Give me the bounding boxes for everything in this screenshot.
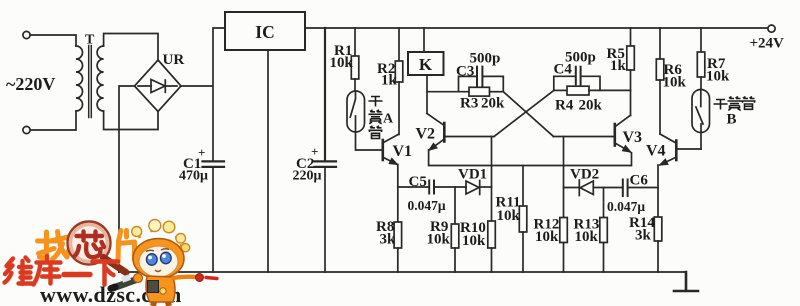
resistor R11 bbox=[522, 166, 524, 207]
svg-text:10k: 10k bbox=[330, 55, 354, 71]
svg-text:10k: 10k bbox=[427, 232, 451, 248]
label reed A chinese 干簧管 (drawn strokes, vertical) bbox=[369, 97, 383, 139]
svg-text:UR: UR bbox=[163, 52, 185, 68]
wire node to C3R3 left bbox=[427, 91, 469, 93]
transformer T primary winding bbox=[76, 46, 83, 111]
resistor R10 bbox=[488, 221, 496, 248]
resistor R7 bbox=[700, 28, 702, 52]
wire R13 tap bbox=[603, 188, 605, 218]
svg-text:R4: R4 bbox=[555, 98, 574, 114]
svg-text:1k: 1k bbox=[381, 73, 398, 89]
capacitor C2 bbox=[315, 28, 337, 167]
wire R9 tap bbox=[454, 187, 456, 224]
arrow V4 emitter bbox=[660, 159, 669, 165]
diode VD1 bbox=[466, 181, 479, 194]
svg-text:3k: 3k bbox=[635, 228, 652, 244]
watermark logo 片 pian (orange) bbox=[118, 231, 135, 263]
svg-text:V3: V3 bbox=[623, 129, 643, 146]
mascot pen and handle bbox=[113, 279, 138, 288]
svg-text:+24V: +24V bbox=[750, 36, 785, 52]
+24V supply rail bbox=[305, 27, 768, 29]
wire reed B to V4 base bbox=[700, 133, 702, 150]
wire UR negative output down to ground rail bbox=[119, 86, 135, 272]
resistor R8 bbox=[394, 222, 402, 248]
watermark logo magnifier glass bbox=[68, 222, 127, 273]
arrow V2 emitter bbox=[429, 143, 437, 150]
svg-text:T: T bbox=[85, 33, 95, 48]
mascot antennae bbox=[137, 226, 186, 248]
svg-text:0.047μ: 0.047μ bbox=[408, 198, 446, 213]
arrow V3 emitter bbox=[622, 146, 630, 153]
watermark mascot bbox=[111, 220, 217, 306]
mascot mouth bbox=[155, 270, 161, 272]
resistor R3 bbox=[469, 87, 490, 96]
terminal AC bottom bbox=[23, 126, 30, 133]
wire primary bottom lead bbox=[30, 111, 76, 130]
wire secondary bottom lead bbox=[104, 111, 158, 130]
wire IC ground pin bbox=[267, 50, 269, 272]
svg-text:10k: 10k bbox=[462, 233, 486, 249]
watermark logo 找芯片 zhao (orange) bbox=[38, 232, 69, 260]
transformer T secondary winding bbox=[97, 46, 103, 111]
svg-text:A: A bbox=[383, 112, 394, 127]
mascot eyes bbox=[146, 254, 157, 266]
wire V2 base bias R10 bbox=[491, 137, 493, 222]
svg-text:C5: C5 bbox=[409, 174, 427, 190]
svg-text:3k: 3k bbox=[380, 232, 397, 248]
resistor R6 bbox=[659, 28, 661, 59]
wire V4 emitter / R14 bbox=[657, 165, 659, 217]
capacitor C5 bbox=[429, 181, 434, 194]
svg-text:10k: 10k bbox=[535, 229, 559, 245]
diode VD2 bbox=[578, 180, 580, 196]
wire cross-couple C3R3 to V3 base bbox=[503, 92, 553, 137]
label reed B chinese 干簧管 (drawn strokes, horizontal) bbox=[714, 97, 756, 111]
svg-text:C6: C6 bbox=[630, 173, 649, 189]
ground bbox=[674, 272, 698, 291]
wire V3 base bias R12 bbox=[563, 137, 565, 218]
transistor V2 bbox=[443, 123, 446, 142]
svg-text:V4: V4 bbox=[646, 143, 666, 160]
svg-text:VD1: VD1 bbox=[458, 167, 487, 183]
resistor R1 bbox=[354, 28, 356, 56]
reed switch A bbox=[347, 91, 365, 132]
transistor V3 bbox=[613, 124, 616, 146]
bridge rectifier UR internal diode bbox=[138, 85, 177, 87]
transistor V1 bbox=[381, 140, 384, 160]
mascot left hand on pen bbox=[134, 274, 143, 283]
mascot head bbox=[133, 239, 184, 279]
watermark text 维库一下 (red strokes) bbox=[5, 256, 119, 285]
mascot right arm bbox=[173, 277, 196, 278]
resistor R12 bbox=[560, 218, 568, 243]
transistor V4 bbox=[675, 141, 678, 161]
svg-text:IC: IC bbox=[255, 22, 274, 42]
ground rail bbox=[119, 271, 686, 273]
capacitor C6 bbox=[623, 180, 628, 197]
svg-text:V1: V1 bbox=[393, 143, 413, 160]
capacitor C1 bbox=[203, 161, 225, 167]
mascot legs bbox=[153, 302, 169, 306]
arrow V1 emitter bbox=[389, 158, 397, 164]
resistor R5 bbox=[630, 28, 632, 46]
svg-text:VD2: VD2 bbox=[570, 167, 599, 183]
resistor R2 bbox=[398, 28, 400, 61]
mascot body bbox=[146, 276, 175, 302]
reed switch B bbox=[692, 90, 710, 133]
svg-text:10k: 10k bbox=[663, 75, 687, 91]
capacitor C4 bbox=[554, 76, 600, 90]
svg-text:~220V: ~220V bbox=[6, 74, 55, 94]
svg-text:10k: 10k bbox=[575, 229, 599, 245]
relay K box bbox=[423, 28, 425, 52]
wire V1 emitter trigger line bbox=[398, 186, 429, 188]
wire V1 emitter / R8 bbox=[397, 165, 399, 223]
terminal +24V bbox=[768, 25, 775, 32]
svg-text:10k: 10k bbox=[706, 69, 730, 85]
svg-text:470μ: 470μ bbox=[179, 169, 208, 184]
capacitor C3 bbox=[459, 76, 504, 91]
wire UR positive output to IC and C1 bbox=[181, 28, 225, 161]
bridge rectifier UR diamond bbox=[135, 60, 182, 112]
resistor R13 bbox=[600, 218, 608, 243]
wire primary top lead bbox=[30, 35, 76, 46]
svg-text:10k: 10k bbox=[497, 208, 521, 224]
wire right trigger line bbox=[564, 187, 580, 189]
svg-text:0.047μ: 0.047μ bbox=[607, 199, 645, 214]
svg-text:500p: 500p bbox=[470, 51, 501, 67]
watermark logo 芯 xin (dark red, inside glass) bbox=[75, 232, 105, 258]
svg-text:1k: 1k bbox=[610, 58, 627, 74]
svg-text:V2: V2 bbox=[416, 126, 436, 143]
transformer T core bbox=[89, 46, 92, 118]
resistor R9 bbox=[451, 224, 459, 248]
resistor R4 bbox=[554, 89, 567, 91]
IC U1 box bbox=[225, 12, 305, 50]
wire secondary top lead bbox=[104, 34, 158, 61]
wire V2 emitter coupling line bbox=[429, 150, 632, 166]
terminal AC top bbox=[23, 31, 30, 38]
svg-text:B: B bbox=[727, 112, 737, 128]
svg-text:K: K bbox=[419, 55, 433, 74]
wire cross-couple C4R4 to V2 base bbox=[494, 90, 554, 136]
wire reed A to V1 base bbox=[356, 132, 382, 150]
resistor R14 bbox=[654, 217, 662, 241]
svg-text:220μ: 220μ bbox=[293, 169, 322, 184]
svg-text:20k: 20k bbox=[579, 98, 603, 114]
svg-text:500p: 500p bbox=[565, 50, 596, 66]
svg-text:20k: 20k bbox=[481, 96, 505, 112]
svg-text:R3: R3 bbox=[460, 96, 478, 112]
